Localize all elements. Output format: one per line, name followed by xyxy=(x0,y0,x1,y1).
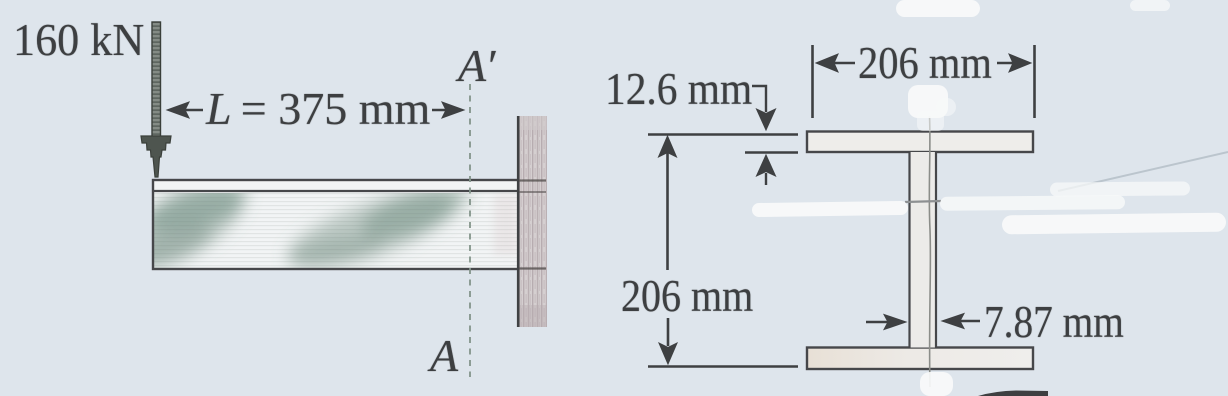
dimension L arrows xyxy=(167,102,464,118)
web thickness dimension 7.87 mm xyxy=(866,314,980,330)
beam lines through wall xyxy=(519,179,546,181)
white scan dab top center xyxy=(896,0,980,17)
white scan streak right of web thin xyxy=(940,195,1125,211)
text 160 kN xyxy=(13,13,144,66)
white scan dab top right xyxy=(1130,0,1170,11)
beam interior scanline texture xyxy=(154,193,517,268)
bottom flange xyxy=(807,348,1033,370)
faint scan line across web xyxy=(905,201,941,202)
section line A-A' dashed xyxy=(469,84,471,377)
load arrow 160 kN xyxy=(152,22,161,140)
white scan streak upper right band xyxy=(1050,181,1190,196)
label A xyxy=(430,329,458,382)
white scan streak lower right band xyxy=(1002,213,1226,235)
top width dimension 206 mm xyxy=(813,45,1035,118)
left depth dimension 206 mm xyxy=(648,135,798,367)
beam outline xyxy=(153,180,519,269)
white blob above top flange xyxy=(908,85,948,118)
text 206 mm top xyxy=(858,36,992,89)
top flange xyxy=(807,132,1033,153)
white blob below bottom flange xyxy=(920,372,953,396)
beam green shading patch left xyxy=(116,160,261,283)
beam body xyxy=(153,180,519,269)
text 12.6 mm xyxy=(605,62,752,115)
web xyxy=(910,152,937,348)
web centerline xyxy=(929,116,930,387)
beam top flange line xyxy=(153,190,519,192)
wall support xyxy=(519,116,547,327)
12.6 mm leader and arrows xyxy=(745,86,798,185)
white scan streak left of web xyxy=(752,201,908,217)
label A' xyxy=(458,39,498,92)
faint pink tint near wall inside beam xyxy=(494,195,518,255)
bottom edge dark mark xyxy=(978,391,1048,396)
beam green shading patch middle xyxy=(279,176,474,283)
text 7.87 mm xyxy=(984,295,1124,348)
faint diagonal scratch near right edge xyxy=(1058,152,1228,191)
text 206 mm left xyxy=(621,269,753,322)
text L = 375 mm xyxy=(206,82,430,135)
